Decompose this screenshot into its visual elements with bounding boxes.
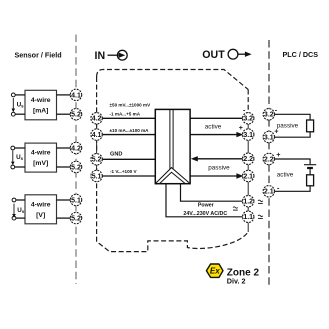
svg-text:3.2: 3.2 <box>264 112 274 119</box>
svg-text:4.2: 4.2 <box>71 145 81 152</box>
svg-text:+: + <box>239 123 243 132</box>
svg-text:Us: Us <box>16 154 24 161</box>
svg-text:passive: passive <box>277 122 299 129</box>
svg-text:2.1: 2.1 <box>243 173 253 180</box>
svg-text:Ex: Ex <box>210 267 220 276</box>
svg-text:5.2: 5.2 <box>92 157 102 164</box>
svg-text:Div. 2: Div. 2 <box>227 277 246 286</box>
svg-text:[mV]: [mV] <box>33 160 48 167</box>
svg-text:PLC / DCS: PLC / DCS <box>283 50 319 59</box>
svg-text:Sensor / Field: Sensor / Field <box>15 50 62 59</box>
svg-text:4-wire: 4-wire <box>31 150 51 157</box>
svg-text:±10 mA...±100 mA: ±10 mA...±100 mA <box>110 128 150 133</box>
svg-text:4.2: 4.2 <box>92 116 102 123</box>
svg-text:5.1: 5.1 <box>71 197 81 204</box>
svg-text:+: + <box>274 127 278 136</box>
svg-text:2.2: 2.2 <box>264 156 274 163</box>
svg-text:2.1: 2.1 <box>264 189 274 196</box>
svg-text:±50 mV...±1000 mV: ±50 mV...±1000 mV <box>110 102 152 107</box>
svg-text:5.1: 5.1 <box>92 173 102 180</box>
svg-text:5.2: 5.2 <box>71 112 81 119</box>
svg-text:24V...230V AC/DC: 24V...230V AC/DC <box>183 211 227 217</box>
svg-text:[V]: [V] <box>36 212 45 219</box>
svg-text:3.1: 3.1 <box>243 132 253 139</box>
svg-text:1.2: 1.2 <box>243 199 253 206</box>
svg-text:5.2: 5.2 <box>71 164 81 171</box>
svg-text:active: active <box>205 123 222 130</box>
svg-text:1.1: 1.1 <box>243 214 253 221</box>
svg-text:-1 mA...+5 mA: -1 mA...+5 mA <box>110 112 141 117</box>
svg-text:4.1: 4.1 <box>92 132 102 139</box>
svg-text:5.2: 5.2 <box>71 216 81 223</box>
svg-text:passive: passive <box>208 164 230 171</box>
svg-text:active: active <box>277 171 294 178</box>
svg-text:3.1: 3.1 <box>264 134 274 141</box>
svg-text:2.2: 2.2 <box>243 156 253 163</box>
svg-text:IN: IN <box>95 50 106 62</box>
svg-text:4.1: 4.1 <box>71 92 81 99</box>
svg-text:4-wire: 4-wire <box>31 201 51 208</box>
svg-text:GND: GND <box>110 151 122 157</box>
svg-text:OUT: OUT <box>202 49 225 61</box>
svg-text:4-wire: 4-wire <box>31 97 51 104</box>
svg-text:Power: Power <box>198 202 214 208</box>
svg-text:Us: Us <box>17 102 25 109</box>
svg-text:[mA]: [mA] <box>33 107 48 114</box>
svg-text:+: + <box>276 150 280 159</box>
svg-text:-1 V...+100 V: -1 V...+100 V <box>110 169 137 174</box>
svg-text:3.2: 3.2 <box>243 116 253 123</box>
svg-text:Us: Us <box>17 207 25 214</box>
